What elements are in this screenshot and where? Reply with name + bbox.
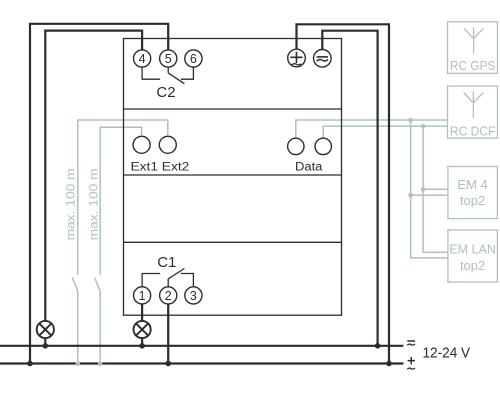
contact C2 stub from terminal 4	[142, 67, 160, 79]
junction ~ wire at top bus	[375, 343, 381, 349]
svg-text:top2: top2	[460, 258, 485, 273]
wire branch to EM 4 from bus B (grey)	[423, 188, 448, 190]
terminal 6	[185, 50, 202, 67]
antenna symbol RC DCF	[464, 92, 484, 119]
svg-text:EM 4: EM 4	[457, 177, 487, 192]
svg-text:1: 1	[139, 289, 146, 303]
contact C2 blade	[168, 73, 184, 84]
terminal 1	[134, 287, 151, 304]
wire L conductor: bottom bus to terminal 5	[30, 24, 168, 364]
switch S2 blade (grey)	[72, 278, 78, 292]
wire bottom supply bus	[0, 362, 403, 364]
wire Data1 to RC DCF (grey)	[296, 120, 448, 138]
terminal Ext2	[159, 136, 176, 153]
divider above C1 section	[124, 241, 342, 243]
svg-text:top2: top2	[460, 193, 485, 208]
contact C1 blade	[168, 269, 184, 279]
junction data bus A top	[408, 118, 413, 123]
wire S2 to bottom bus (grey)	[77, 291, 79, 364]
contact C1 stub from terminal 3	[181, 274, 194, 287]
svg-text:6: 6	[190, 52, 197, 66]
wire data bus A down to EM LAN (grey)	[411, 120, 448, 258]
svg-text:C2: C2	[156, 84, 175, 101]
svg-text:12-24 V: 12-24 V	[423, 345, 471, 362]
wire data bus B down to EM LAN (grey)	[423, 126, 448, 252]
contact C1 stub from terminal 1	[142, 274, 160, 287]
device outline box	[124, 39, 342, 316]
junction + wire at bottom bus	[386, 361, 392, 367]
wire terminal 2 to bottom bus	[167, 304, 169, 364]
wire top supply bus	[0, 345, 403, 347]
divider below Ext/Data section	[124, 174, 342, 176]
svg-text:RC GPS: RC GPS	[450, 59, 496, 73]
svg-text:C1: C1	[157, 254, 176, 271]
svg-text:Ext1 Ext2: Ext1 Ext2	[131, 161, 190, 173]
wire Ext2 to external switch S2 (grey)	[78, 120, 168, 275]
supply polarity symbol plus/~ at bottom bus end	[408, 357, 415, 364]
svg-text:2: 2	[165, 289, 172, 303]
terminal 2	[160, 287, 177, 304]
junction data bus B top	[421, 124, 426, 129]
svg-text:RC DCF: RC DCF	[450, 124, 496, 138]
wire Data2 to RC DCF (grey)	[323, 126, 447, 138]
wire terminal 1 to lamp E2	[141, 304, 143, 322]
svg-text:EM LAN: EM LAN	[449, 242, 496, 257]
module box EM 4 top2	[448, 167, 498, 219]
terminal + supply	[288, 49, 306, 67]
svg-text:Data: Data	[295, 161, 323, 173]
contact C2 common from terminal 5	[167, 67, 169, 73]
terminal Data2	[315, 138, 331, 154]
junction lamp E1 at top bus	[43, 343, 49, 349]
antenna symbol RC GPS	[464, 27, 484, 53]
lamp E2	[134, 321, 151, 338]
junction S2 at bottom bus (grey)	[76, 362, 81, 367]
antenna module box RC DCF	[448, 86, 498, 138]
wire lamp E1 to top bus	[44, 338, 46, 346]
junction terminal 2 at bottom bus	[165, 361, 171, 367]
module box EM LAN top2	[448, 230, 498, 282]
wire branch to EM 4 from bus A (grey)	[411, 194, 448, 196]
switch S1 blade (grey)	[95, 278, 101, 292]
svg-text:3: 3	[190, 289, 197, 303]
junction data bus B at EM 4	[421, 187, 426, 192]
terminal 5	[160, 50, 177, 67]
terminal 3	[185, 287, 202, 304]
wire lamp E1 branch to terminal 4	[45, 31, 142, 322]
contact C1 common from terminal 2	[167, 279, 169, 287]
terminal Ext1	[133, 136, 150, 153]
wire S1 to bottom bus (grey)	[99, 291, 101, 364]
junction S1 at bottom bus (grey)	[98, 362, 103, 367]
antenna module box RC GPS	[448, 22, 498, 74]
divider below C2 section	[124, 108, 342, 110]
terminal ~ supply	[314, 50, 332, 68]
svg-text:5: 5	[165, 52, 172, 66]
supply polarity symbol minus/~ at top bus end	[407, 340, 415, 342]
junction data bus A at EM 4	[408, 193, 413, 198]
contact C2 stub from terminal 6	[181, 67, 194, 79]
svg-text:max. 100 m: max. 100 m	[63, 168, 77, 240]
junction lamp E2 at top bus	[139, 343, 145, 349]
svg-text:4: 4	[139, 52, 146, 66]
terminal Data1	[288, 138, 304, 154]
wire terminal + to bottom bus (right)	[297, 24, 390, 363]
wire lamp E2 to top bus	[141, 338, 143, 346]
wire terminal ~ to top bus (right)	[322, 31, 377, 346]
terminal 4	[134, 50, 151, 67]
wire Ext1 to external switch S1 (grey)	[100, 127, 141, 275]
lamp E1	[37, 321, 54, 338]
junction L at bottom bus	[27, 361, 33, 367]
svg-text:max. 100 m: max. 100 m	[86, 168, 100, 240]
